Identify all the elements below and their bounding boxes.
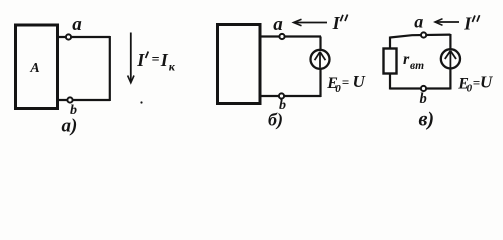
wire: top from box to source (fig b) (259, 35, 321, 37)
svg-text:a: a (72, 14, 82, 35)
current arrow I'' (fig v) (436, 21, 459, 23)
svg-text:A: A (29, 61, 39, 76)
wire: bottom from box to node b (fig a) (57, 99, 110, 101)
resistor r_vt (fig v) (384, 49, 397, 74)
svg-text:U: U (480, 73, 493, 92)
EMF source E0 (fig v) (441, 49, 460, 68)
svg-text:a: a (273, 14, 283, 35)
svg-text:b: b (420, 91, 427, 107)
svg-text:вт: вт (410, 60, 424, 72)
terminal b (fig b) (279, 93, 284, 98)
terminal b (fig v) (421, 86, 426, 91)
two-terminal network box (fig b) (218, 25, 261, 104)
wire: right branch (fig b) (319, 37, 321, 98)
svg-text:a: a (414, 11, 423, 31)
current arrow I'' (fig b) (295, 22, 328, 24)
svg-text:к: к (169, 60, 176, 74)
svg-text:I: I (136, 50, 145, 70)
terminal b (fig a) (67, 97, 72, 102)
svg-text:I: I (463, 13, 472, 33)
wire: top of loop (fig v) (390, 35, 450, 38)
svg-text:=: = (342, 75, 349, 90)
terminal a (fig v) (421, 32, 426, 37)
two-terminal network box A (fig a) (16, 25, 58, 109)
svg-text:I: I (160, 50, 169, 70)
current arrow I' (fig a) (130, 33, 132, 82)
wire: bottom from box to source (fig b) (259, 95, 321, 97)
svg-text:а): а) (62, 116, 78, 137)
terminal a (fig b) (279, 34, 284, 39)
EMF source E0 (fig b) (311, 50, 330, 69)
svg-text:0: 0 (335, 83, 341, 95)
svg-text:=: = (152, 53, 160, 68)
wire: top from box to node a (fig a) (57, 36, 110, 38)
svg-text:=: = (473, 75, 480, 90)
svg-text:б): б) (268, 110, 283, 131)
svg-text:I: I (332, 13, 341, 33)
wire: right vertical short-circuit link (fig a) (109, 36, 111, 101)
ink speck (140, 101, 142, 103)
svg-text:0: 0 (467, 83, 473, 95)
wire: left branch (fig v) (389, 37, 391, 90)
svg-text:в): в) (419, 109, 435, 131)
wire: right branch (fig v) (449, 34, 451, 90)
svg-text:U: U (353, 72, 366, 91)
svg-text:r: r (403, 51, 410, 68)
wire: bottom of loop (fig v) (390, 87, 450, 89)
terminal a (fig a) (66, 34, 71, 39)
